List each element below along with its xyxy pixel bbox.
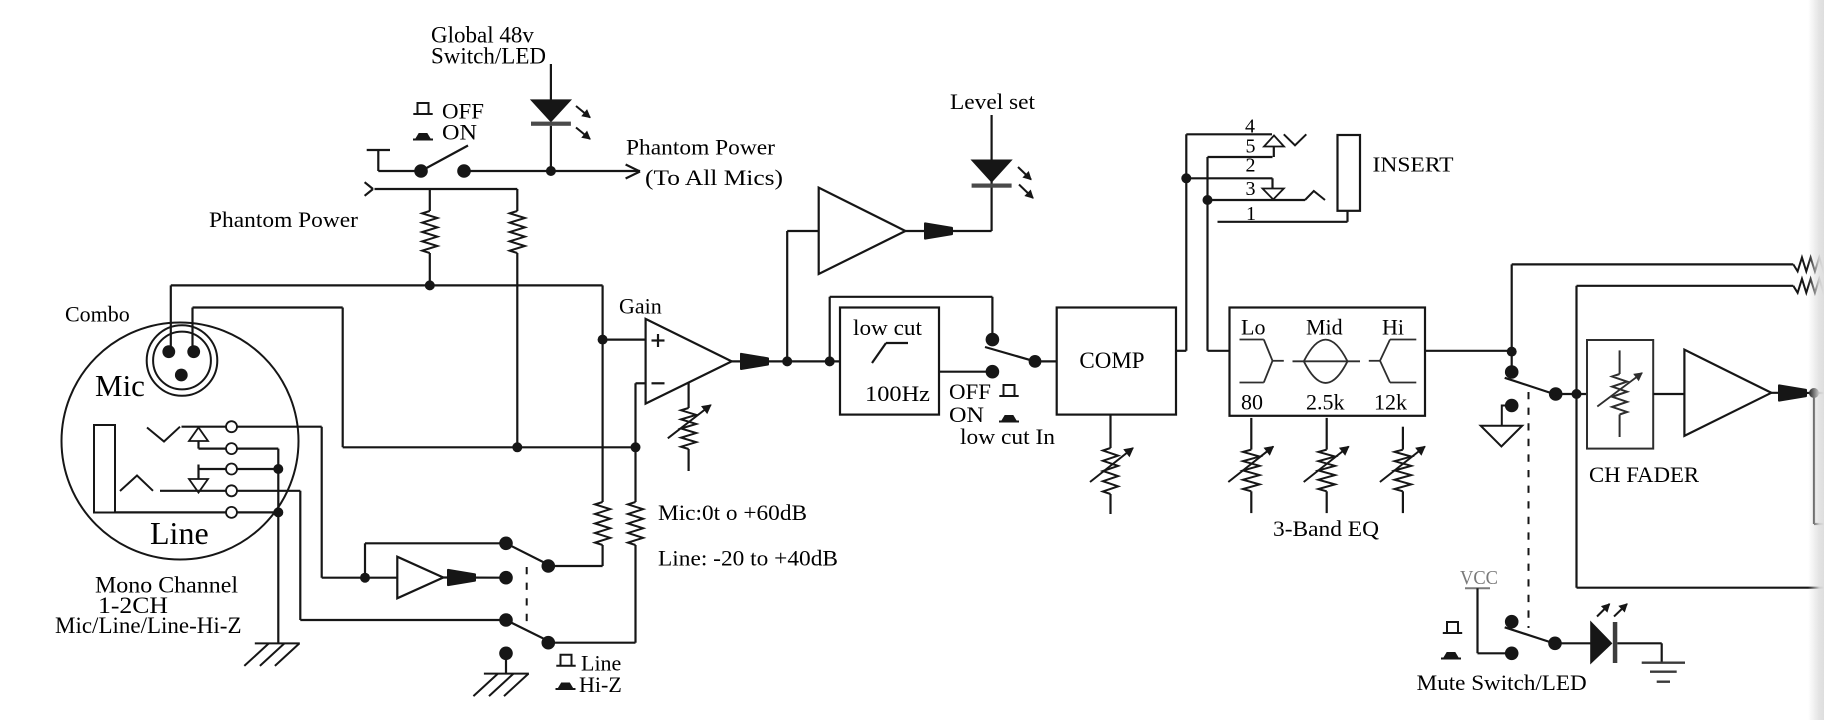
svg-text:2.5k: 2.5k bbox=[1306, 390, 1345, 415]
svg-text:Mic: Mic bbox=[95, 368, 145, 403]
svg-text:Switch/LED: Switch/LED bbox=[431, 44, 546, 69]
svg-text:2: 2 bbox=[1246, 155, 1256, 177]
svg-text:Hi-Z: Hi-Z bbox=[579, 672, 622, 697]
svg-text:OFF: OFF bbox=[949, 379, 991, 404]
svg-text:Mic/Line/Line-Hi-Z: Mic/Line/Line-Hi-Z bbox=[55, 613, 242, 638]
svg-text:Phantom Power: Phantom Power bbox=[209, 207, 359, 232]
svg-text:Mid: Mid bbox=[1306, 315, 1343, 340]
svg-text:3-Band EQ: 3-Band EQ bbox=[1273, 516, 1379, 541]
svg-text:Mic:0t o +60dB: Mic:0t o +60dB bbox=[658, 500, 807, 525]
svg-text:Phantom Power: Phantom Power bbox=[626, 135, 776, 160]
svg-text:80: 80 bbox=[1241, 390, 1263, 415]
svg-text:100Hz: 100Hz bbox=[865, 381, 930, 406]
svg-text:Line: Line bbox=[150, 515, 209, 551]
svg-text:INSERT: INSERT bbox=[1373, 153, 1454, 177]
svg-text:Gain: Gain bbox=[619, 294, 662, 319]
svg-text:4: 4 bbox=[1245, 116, 1255, 138]
svg-text:ON: ON bbox=[442, 120, 477, 145]
svg-text:3: 3 bbox=[1246, 178, 1256, 200]
svg-text:Mute Switch/LED: Mute Switch/LED bbox=[1417, 670, 1587, 695]
svg-text:(To All Mics): (To All Mics) bbox=[645, 165, 783, 190]
svg-text:Level set: Level set bbox=[950, 89, 1035, 114]
svg-text:VCC: VCC bbox=[1460, 567, 1498, 589]
svg-text:12k: 12k bbox=[1374, 390, 1407, 415]
svg-text:Lo: Lo bbox=[1241, 315, 1265, 340]
svg-text:COMP: COMP bbox=[1079, 348, 1144, 373]
svg-text:1: 1 bbox=[1246, 203, 1256, 225]
svg-text:Hi: Hi bbox=[1382, 315, 1404, 340]
svg-text:Combo: Combo bbox=[65, 302, 130, 327]
svg-text:low cut: low cut bbox=[853, 315, 922, 340]
svg-text:CH FADER: CH FADER bbox=[1589, 462, 1699, 487]
svg-text:Line: -20 to +40dB: Line: -20 to +40dB bbox=[658, 546, 838, 571]
svg-text:low cut In: low cut In bbox=[960, 424, 1055, 449]
